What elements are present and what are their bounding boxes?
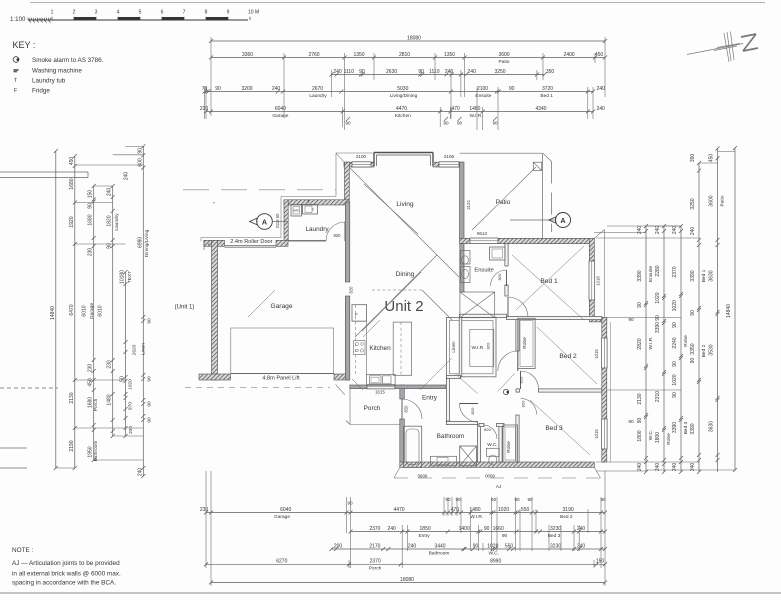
svg-text:6010: 6010 bbox=[82, 305, 88, 316]
bed3 door bbox=[521, 398, 537, 414]
bath tub bbox=[404, 426, 422, 467]
svg-text:450: 450 bbox=[709, 154, 715, 163]
svg-text:90: 90 bbox=[147, 376, 153, 382]
window 0612 bbox=[470, 238, 498, 244]
svg-text:90: 90 bbox=[418, 69, 424, 75]
garage door zone rect bbox=[231, 328, 334, 373]
bathroom vanity bbox=[430, 456, 456, 466]
svg-text:2190: 2190 bbox=[69, 440, 75, 451]
svg-text:1480: 1480 bbox=[107, 394, 113, 405]
svg-text:0612: 0612 bbox=[477, 231, 488, 236]
wall: patio south brick bbox=[460, 238, 595, 243]
washing machine bbox=[291, 205, 302, 217]
bed3 robe bbox=[503, 425, 518, 462]
north arrow bbox=[687, 32, 758, 63]
svg-text:3250: 3250 bbox=[690, 198, 696, 209]
svg-text:970: 970 bbox=[128, 402, 134, 410]
svg-text:240: 240 bbox=[577, 543, 586, 549]
dim column: left col 14840 bbox=[50, 149, 58, 470]
svg-text:150: 150 bbox=[596, 559, 605, 565]
wall: bed1 east bbox=[589, 238, 594, 318]
svg-text:90: 90 bbox=[473, 543, 479, 549]
svg-text:8: 8 bbox=[205, 10, 208, 16]
wall: bed2 north / hall bbox=[507, 316, 602, 319]
wall: hall east vertical bbox=[446, 377, 449, 421]
svg-text:Kitchen: Kitchen bbox=[395, 113, 411, 119]
svg-text:Ensuite: Ensuite bbox=[474, 268, 493, 274]
svg-text:240: 240 bbox=[468, 69, 477, 75]
svg-text:Laundry: Laundry bbox=[305, 226, 329, 233]
window kitchen 1015 bbox=[367, 385, 395, 389]
svg-text:W.I.R.: W.I.R. bbox=[470, 514, 483, 520]
wall: south bed3 corner bbox=[394, 467, 601, 478]
svg-text:2106: 2106 bbox=[444, 154, 455, 159]
svg-text:2620: 2620 bbox=[132, 344, 138, 355]
wall: entry west bbox=[400, 385, 405, 462]
dim column: right col 1 bbox=[637, 224, 654, 474]
svg-text:x: x bbox=[208, 243, 210, 247]
svg-text:Laundry tub: Laundry tub bbox=[32, 78, 66, 85]
svg-text:1850: 1850 bbox=[420, 526, 431, 532]
window bed2 1015 bbox=[602, 338, 608, 368]
porch slab bbox=[346, 389, 400, 425]
svg-text:3360: 3360 bbox=[242, 52, 253, 58]
note text block bbox=[12, 547, 121, 587]
svg-text:W.C.: W.C. bbox=[487, 442, 497, 448]
svg-text:350: 350 bbox=[546, 69, 555, 75]
svg-text:820: 820 bbox=[404, 405, 409, 413]
window bed1 1018 bbox=[589, 261, 595, 300]
svg-text:3600: 3600 bbox=[709, 195, 715, 206]
svg-text:90: 90 bbox=[690, 358, 696, 364]
svg-text:2115 50: 2115 50 bbox=[275, 213, 280, 228]
svg-text:4.8m Panel Lift: 4.8m Panel Lift bbox=[262, 376, 300, 382]
svg-text:3: 3 bbox=[95, 10, 98, 16]
wall: bed2-bed3 east bbox=[602, 317, 607, 462]
eave bed2-3 bbox=[610, 322, 612, 462]
svg-text:1015: 1015 bbox=[594, 429, 599, 439]
svg-text:90: 90 bbox=[628, 419, 634, 425]
wall: garage south + panel lift bbox=[199, 374, 350, 380]
svg-text:90: 90 bbox=[628, 317, 634, 323]
window 2100 top bbox=[352, 162, 371, 167]
svg-text:6: 6 bbox=[161, 10, 164, 16]
svg-text:Ensuite: Ensuite bbox=[648, 266, 654, 282]
svg-text:240: 240 bbox=[272, 86, 281, 92]
svg-text:240: 240 bbox=[333, 69, 342, 75]
svg-text:Living/Dining: Living/Dining bbox=[390, 93, 418, 99]
svg-text:6040: 6040 bbox=[275, 106, 286, 112]
svg-text:550: 550 bbox=[505, 543, 514, 549]
svg-text:2170: 2170 bbox=[369, 543, 380, 549]
svg-text:2310: 2310 bbox=[655, 391, 661, 402]
svg-text:2100: 2100 bbox=[477, 86, 488, 92]
svg-text:A: A bbox=[262, 218, 267, 227]
wall: ensuite-bed1 divider lower bbox=[505, 285, 508, 296]
svg-text:820: 820 bbox=[484, 427, 491, 432]
svg-text:Robe: Robe bbox=[506, 441, 512, 453]
svg-text:3530: 3530 bbox=[709, 344, 715, 355]
svg-text:3390: 3390 bbox=[672, 422, 678, 433]
svg-text:2130: 2130 bbox=[637, 393, 643, 404]
svg-text:Garage: Garage bbox=[274, 514, 290, 520]
svg-text:1015: 1015 bbox=[594, 349, 599, 359]
wall: kitchen-hall stub bbox=[447, 375, 461, 378]
svg-text:Linen: Linen bbox=[451, 341, 456, 353]
svg-text:3720: 3720 bbox=[542, 86, 553, 92]
svg-text:14840: 14840 bbox=[726, 304, 732, 318]
floor diagonals bbox=[248, 167, 597, 455]
svg-text:3390: 3390 bbox=[690, 270, 696, 281]
wall: ensuite west bbox=[460, 244, 464, 292]
svg-text:Garage: Garage bbox=[271, 303, 293, 310]
svg-text:Smoke alarm to AS 3786.: Smoke alarm to AS 3786. bbox=[32, 57, 104, 64]
svg-text:Porch: Porch bbox=[364, 405, 381, 412]
svg-text:3440: 3440 bbox=[434, 543, 445, 549]
svg-text:1020: 1020 bbox=[672, 374, 678, 385]
svg-text:1:100: 1:100 bbox=[10, 16, 26, 23]
svg-text:240: 240 bbox=[577, 526, 586, 532]
svg-text:0009: 0009 bbox=[485, 474, 495, 479]
svg-text:5030: 5030 bbox=[397, 86, 408, 92]
svg-text:550: 550 bbox=[521, 507, 530, 513]
ensuite toilet bbox=[461, 251, 471, 283]
svg-text:W.I.R.: W.I.R. bbox=[469, 113, 482, 119]
svg-text:Kitchen: Kitchen bbox=[369, 345, 391, 352]
smoke alarm hall bbox=[503, 389, 509, 394]
svg-text:4470: 4470 bbox=[393, 507, 404, 513]
svg-text:6010: 6010 bbox=[98, 305, 104, 316]
wall: ensuite-bed1 divider upper bbox=[505, 244, 508, 266]
svg-text:820: 820 bbox=[521, 400, 526, 407]
dim column: left col 3 bbox=[88, 184, 99, 462]
svg-text:5: 5 bbox=[139, 10, 142, 16]
kitchen bench west bbox=[352, 321, 367, 375]
dim row: bottom row 5 bbox=[209, 577, 607, 585]
svg-text:Bathroom: Bathroom bbox=[429, 550, 450, 556]
svg-text:2.4m Roller Door: 2.4m Roller Door bbox=[230, 239, 272, 245]
svg-text:Garage: Garage bbox=[272, 113, 288, 119]
svg-text:Dining/Living: Dining/Living bbox=[144, 229, 150, 257]
svg-text:3390: 3390 bbox=[690, 423, 696, 434]
svg-text:240: 240 bbox=[637, 463, 643, 472]
svg-text:2280: 2280 bbox=[655, 265, 661, 276]
dim row: bottom row 2 bbox=[349, 526, 608, 539]
svg-text:820: 820 bbox=[486, 342, 491, 349]
bed2 door bbox=[519, 371, 539, 389]
svg-text:240: 240 bbox=[387, 526, 396, 532]
svg-text:1800: 1800 bbox=[637, 430, 643, 441]
ensuite shower bbox=[490, 247, 506, 260]
svg-text:2820: 2820 bbox=[637, 338, 643, 349]
svg-text:820: 820 bbox=[470, 407, 475, 414]
svg-text:KEY :: KEY : bbox=[13, 40, 36, 50]
svg-text:3390: 3390 bbox=[637, 270, 643, 281]
right col1 side 90s bbox=[628, 317, 634, 425]
svg-text:Bed 3: Bed 3 bbox=[548, 533, 561, 539]
svg-text:3250: 3250 bbox=[494, 69, 505, 75]
svg-text:1350: 1350 bbox=[353, 52, 364, 58]
wir door bbox=[498, 351, 518, 371]
bed1 door bbox=[508, 297, 528, 317]
wall: wir box bbox=[447, 318, 497, 377]
bottom block witness lines bbox=[206, 471, 605, 586]
svg-text:(Unit 1): (Unit 1) bbox=[175, 305, 195, 311]
svg-text:470: 470 bbox=[451, 106, 460, 112]
svg-text:6990: 6990 bbox=[137, 237, 143, 248]
wall: garage north + roller opening bbox=[204, 240, 288, 250]
entry door bbox=[402, 399, 422, 419]
svg-text:1020: 1020 bbox=[672, 300, 678, 311]
bathroom shower bbox=[460, 446, 477, 466]
svg-text:1110: 1110 bbox=[344, 69, 355, 75]
svg-text:Bed 2: Bed 2 bbox=[701, 344, 707, 357]
svg-text:1480: 1480 bbox=[469, 106, 480, 112]
sheet border bottom bbox=[0, 592, 781, 594]
svg-text:Bathroom: Bathroom bbox=[437, 433, 465, 440]
svg-text:240: 240 bbox=[597, 106, 606, 112]
svg-text:240: 240 bbox=[124, 172, 130, 181]
svg-text:18080: 18080 bbox=[407, 35, 421, 41]
svg-text:1680: 1680 bbox=[88, 214, 94, 225]
wall: robe3 east / bed3 west bbox=[516, 415, 519, 462]
svg-text:4470: 4470 bbox=[396, 106, 407, 112]
svg-text:Patio: Patio bbox=[499, 59, 510, 65]
svg-text:6270: 6270 bbox=[276, 559, 287, 565]
svg-text:1680: 1680 bbox=[88, 397, 94, 408]
svg-text:Bed 1: Bed 1 bbox=[540, 93, 553, 99]
sheet border top bbox=[30, 2, 765, 4]
svg-text:Robe: Robe bbox=[683, 335, 689, 347]
dim row: top row 3 bbox=[330, 69, 555, 77]
dim column: left col main chain bbox=[69, 154, 77, 470]
bottom row 90 labels bbox=[347, 497, 606, 506]
svg-text:1020: 1020 bbox=[498, 507, 509, 513]
svg-text:1680: 1680 bbox=[69, 178, 75, 189]
right block connectors bbox=[646, 152, 735, 471]
svg-text:230: 230 bbox=[88, 248, 94, 257]
svg-text:wm: wm bbox=[293, 209, 298, 213]
svg-text:spacing in accordance with the: spacing in accordance with the BCA. bbox=[12, 580, 116, 587]
svg-text:1: 1 bbox=[51, 10, 54, 16]
section marker A right bbox=[510, 213, 571, 228]
wall: bathroom east / wc west bbox=[477, 425, 480, 462]
svg-text:90: 90 bbox=[672, 361, 678, 367]
wall: bed2 south bbox=[516, 389, 520, 392]
svg-text:2: 2 bbox=[73, 10, 76, 16]
svg-text:2100: 2100 bbox=[356, 154, 367, 159]
svg-text:6470: 6470 bbox=[69, 304, 75, 315]
svg-text:1400: 1400 bbox=[459, 526, 470, 532]
svg-text:Patio: Patio bbox=[496, 199, 511, 206]
svg-text:Living: Living bbox=[396, 201, 414, 208]
svg-text:1920: 1920 bbox=[69, 216, 75, 227]
dim row: top row segments bbox=[209, 52, 607, 65]
svg-text:14840: 14840 bbox=[50, 306, 56, 320]
eave line top-left bbox=[201, 153, 374, 241]
svg-text:2760: 2760 bbox=[308, 52, 319, 58]
dim column: left col 6 bbox=[132, 144, 153, 478]
svg-text:450: 450 bbox=[88, 378, 94, 387]
svg-text:AJ — Articulation joints to be: AJ — Articulation joints to be provided bbox=[12, 560, 120, 567]
svg-text:2370: 2370 bbox=[672, 266, 678, 277]
svg-text:230: 230 bbox=[107, 360, 113, 369]
svg-text:240: 240 bbox=[107, 188, 113, 197]
svg-text:″: ″ bbox=[213, 202, 215, 208]
wall: wc east bbox=[499, 425, 502, 462]
wall: hall south stub east of wc door bbox=[497, 423, 505, 426]
dim column: right col 4 bbox=[690, 154, 707, 474]
svg-text:90: 90 bbox=[502, 533, 508, 539]
dim row: bottom row 4 bbox=[204, 559, 607, 572]
svg-text:2400: 2400 bbox=[563, 52, 574, 58]
svg-text:W.C.: W.C. bbox=[488, 550, 498, 556]
svg-text:3600: 3600 bbox=[498, 52, 509, 58]
wall: bed1-bed2 jog bbox=[589, 317, 607, 322]
svg-text:1480: 1480 bbox=[469, 507, 480, 513]
key legend bbox=[13, 40, 104, 95]
wall: living north right segment bbox=[433, 162, 459, 167]
svg-text:Ensuite: Ensuite bbox=[475, 93, 491, 99]
svg-text:240: 240 bbox=[137, 468, 143, 477]
svg-text:90: 90 bbox=[455, 497, 461, 502]
svg-text:1018: 1018 bbox=[596, 276, 601, 286]
svg-text:Bed 3: Bed 3 bbox=[545, 425, 563, 432]
svg-text:3200: 3200 bbox=[241, 86, 252, 92]
svg-text:240: 240 bbox=[637, 226, 643, 235]
bed2 robe bbox=[518, 318, 535, 368]
svg-text:90: 90 bbox=[359, 69, 365, 75]
svg-text:Entry: Entry bbox=[422, 395, 438, 402]
svg-text:2124: 2124 bbox=[466, 200, 471, 210]
svg-text:1950: 1950 bbox=[88, 446, 94, 457]
svg-text:1020: 1020 bbox=[655, 292, 661, 303]
svg-text:Porch: Porch bbox=[93, 398, 99, 411]
svg-text:AJ: AJ bbox=[496, 484, 501, 489]
svg-text:8990: 8990 bbox=[490, 559, 501, 565]
svg-text:3390: 3390 bbox=[655, 322, 661, 333]
wall: west living-dining bbox=[345, 202, 350, 380]
svg-text:240: 240 bbox=[445, 69, 454, 75]
svg-text:90: 90 bbox=[347, 501, 353, 506]
svg-text:A: A bbox=[560, 216, 565, 225]
svg-text:10 M: 10 M bbox=[248, 10, 259, 16]
svg-text:350: 350 bbox=[690, 154, 696, 163]
dim row: bottom row 1 bbox=[200, 507, 607, 520]
svg-text:9: 9 bbox=[227, 10, 230, 16]
svg-text:240: 240 bbox=[597, 86, 606, 92]
svg-text:90: 90 bbox=[655, 315, 661, 321]
svg-text:2370: 2370 bbox=[369, 526, 380, 532]
svg-text:Washing machine: Washing machine bbox=[32, 68, 82, 75]
eave corner garage bbox=[336, 385, 345, 395]
svg-text:3350: 3350 bbox=[690, 343, 696, 354]
laundry tub bbox=[303, 199, 318, 214]
svg-text:90: 90 bbox=[672, 392, 678, 398]
svg-text:6040: 6040 bbox=[280, 507, 291, 513]
dim row: top overall 18080 bbox=[209, 35, 607, 43]
wall: bed3 north bbox=[539, 389, 602, 392]
svg-text:2130: 2130 bbox=[69, 392, 75, 403]
svg-text:1350: 1350 bbox=[444, 52, 455, 58]
svg-text:Linen: Linen bbox=[140, 343, 146, 355]
wc toilet bbox=[487, 448, 500, 465]
svg-text:3230: 3230 bbox=[550, 526, 561, 532]
svg-text:3630: 3630 bbox=[709, 270, 715, 281]
dim column: right col 3 bbox=[672, 224, 689, 474]
svg-text:10180: 10180 bbox=[120, 270, 126, 284]
svg-text:240: 240 bbox=[655, 226, 661, 235]
svg-text:1660: 1660 bbox=[493, 526, 504, 532]
wall: laundry south bbox=[288, 240, 326, 242]
left block connectors bbox=[56, 146, 144, 468]
kitchen west dashes bbox=[355, 305, 357, 375]
svg-text:Bed 3: Bed 3 bbox=[683, 421, 689, 434]
svg-text:820: 820 bbox=[349, 286, 354, 294]
svg-text:Robe: Robe bbox=[522, 337, 528, 349]
svg-text:Robe: Robe bbox=[666, 433, 672, 445]
dim column: right col 6 bbox=[726, 146, 737, 472]
svg-text:Bed 1: Bed 1 bbox=[701, 269, 707, 282]
svg-text:2240: 2240 bbox=[672, 337, 678, 348]
svg-text:90: 90 bbox=[672, 322, 678, 328]
svg-text:200: 200 bbox=[128, 426, 134, 434]
wall: kitchen south bbox=[350, 385, 446, 389]
svg-text:1110: 1110 bbox=[429, 69, 440, 75]
svg-text:2370: 2370 bbox=[370, 559, 381, 565]
wall: living north bump bbox=[374, 153, 433, 167]
wall: top-left living west segment bbox=[344, 162, 374, 167]
wall: ensuite south / wir north bbox=[460, 314, 507, 317]
svg-text:Bed 2: Bed 2 bbox=[560, 514, 573, 520]
svg-text:Dining: Dining bbox=[396, 271, 415, 278]
dim row: top row 4 bbox=[202, 86, 605, 99]
svg-text:2810: 2810 bbox=[399, 52, 410, 58]
svg-text:W.C.: W.C. bbox=[648, 430, 654, 440]
svg-text:820: 820 bbox=[497, 273, 502, 280]
patio outline bbox=[460, 153, 552, 238]
svg-text:1020: 1020 bbox=[128, 379, 134, 390]
svg-text:90: 90 bbox=[484, 526, 490, 532]
svg-text:3230: 3230 bbox=[550, 543, 561, 549]
wall: laundry west bbox=[284, 200, 288, 241]
svg-text:4340: 4340 bbox=[535, 106, 546, 112]
bathroom door bbox=[460, 404, 479, 423]
svg-text:90: 90 bbox=[147, 417, 153, 423]
svg-text:3630: 3630 bbox=[709, 421, 715, 432]
svg-text:240: 240 bbox=[672, 226, 678, 235]
top row 90 labels bbox=[345, 117, 498, 126]
section marker A left bbox=[250, 214, 289, 230]
svg-text:90: 90 bbox=[88, 203, 94, 209]
wall: south brick bbox=[400, 462, 595, 467]
wall: hall south stub west of wc door bbox=[479, 423, 484, 426]
svg-text:90: 90 bbox=[637, 302, 643, 308]
svg-text:1820: 1820 bbox=[107, 215, 113, 226]
wall: living west upper bbox=[345, 162, 350, 202]
driveway dashes bbox=[185, 387, 330, 389]
svg-text:90: 90 bbox=[147, 318, 153, 324]
svg-text:4: 4 bbox=[117, 10, 120, 16]
window bed3 1015 bbox=[602, 419, 608, 449]
svg-text:450: 450 bbox=[69, 157, 75, 166]
svg-text:7: 7 bbox=[183, 10, 186, 16]
svg-text:Bathroom: Bathroom bbox=[93, 441, 99, 462]
kitchen sink bench bbox=[367, 374, 396, 385]
svg-text:3190: 3190 bbox=[563, 507, 574, 513]
laundry door arc 820 bbox=[326, 222, 345, 241]
svg-text:50: 50 bbox=[120, 376, 126, 382]
